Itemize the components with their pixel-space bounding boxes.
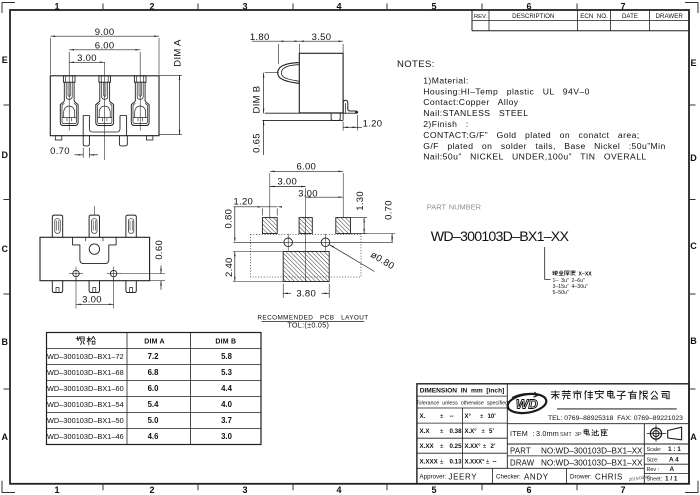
svg-text:±: ± bbox=[440, 428, 444, 435]
svg-text:B: B bbox=[690, 336, 697, 346]
svg-text:X.X: X.X bbox=[420, 428, 431, 435]
svg-text:TOL:(±0.05): TOL:(±0.05) bbox=[287, 321, 329, 330]
svg-text:DRAW: DRAW bbox=[510, 458, 535, 467]
svg-text:4.4: 4.4 bbox=[221, 384, 233, 393]
svg-text:3.80: 3.80 bbox=[296, 289, 316, 300]
svg-text:JEERY: JEERY bbox=[449, 472, 478, 481]
svg-text:5: 5 bbox=[431, 485, 436, 495]
svg-text:DESCRIPTION: DESCRIPTION bbox=[512, 13, 554, 20]
svg-text:4: 4 bbox=[336, 2, 341, 12]
svg-text:6.8: 6.8 bbox=[148, 368, 160, 377]
svg-text:1)Material:: 1)Material: bbox=[423, 75, 469, 85]
svg-text:C: C bbox=[1, 244, 8, 254]
svg-text:DIM B: DIM B bbox=[251, 86, 262, 114]
svg-text:Nail:50u” NICKEL UNDER,100u”: Nail:50u” NICKEL UNDER,100u” TIN OVERALL bbox=[423, 152, 646, 162]
svg-text:PART NUMBER: PART NUMBER bbox=[427, 202, 481, 211]
svg-text:0.25: 0.25 bbox=[450, 443, 463, 450]
svg-text:Contact:Copper Alloy: Contact:Copper Alloy bbox=[423, 97, 519, 107]
svg-text:3.50: 3.50 bbox=[312, 32, 332, 43]
svg-text:5–50u”: 5–50u” bbox=[553, 290, 569, 296]
svg-text:Housing:HI–Temp plastic UL: Housing:HI–Temp plastic UL 94V–0 bbox=[423, 86, 590, 96]
svg-text:X.XX°: X.XX° bbox=[465, 444, 482, 450]
svg-text:A 4: A 4 bbox=[669, 456, 679, 463]
svg-text:E: E bbox=[690, 58, 696, 68]
svg-text:7: 7 bbox=[620, 2, 625, 12]
svg-text:G/F plated on solder tails: G/F plated on solder tails, Base Nickel … bbox=[423, 141, 666, 151]
svg-text:D: D bbox=[1, 150, 8, 160]
svg-text:SMT 3P: SMT 3P bbox=[560, 432, 582, 438]
svg-text:A: A bbox=[670, 466, 675, 473]
svg-text:DIM A: DIM A bbox=[172, 39, 183, 67]
svg-text:NO:WD–300103D–BX1–XX: NO:WD–300103D–BX1–XX bbox=[541, 458, 643, 467]
svg-text:1 / 1: 1 / 1 bbox=[665, 476, 678, 483]
svg-text:2)Finish :: 2)Finish : bbox=[423, 119, 468, 129]
svg-text:5.8: 5.8 bbox=[221, 352, 233, 361]
svg-text:0.70: 0.70 bbox=[50, 146, 70, 157]
svg-text:DIMENSION IN mm [inch]: DIMENSION IN mm [inch] bbox=[420, 387, 505, 394]
svg-text:A: A bbox=[690, 432, 697, 442]
svg-text:X.X°: X.X° bbox=[465, 429, 478, 435]
svg-text:Sheet:: Sheet: bbox=[647, 477, 663, 483]
svg-text:DRAWER: DRAWER bbox=[656, 13, 684, 20]
svg-text:3.7: 3.7 bbox=[221, 416, 232, 425]
svg-text:X.XXX°: X.XXX° bbox=[465, 459, 486, 465]
svg-text:DIM A: DIM A bbox=[144, 339, 165, 346]
svg-text:2: 2 bbox=[149, 485, 154, 495]
svg-text:4: 4 bbox=[336, 485, 341, 495]
svg-text:3: 3 bbox=[242, 485, 247, 495]
svg-text:CONTACT:G/F” Gold plated on: CONTACT:G/F” Gold plated on conatct area… bbox=[423, 130, 640, 140]
svg-text:Drower:: Drower: bbox=[570, 474, 592, 481]
svg-text:6.0: 6.0 bbox=[148, 384, 160, 393]
svg-text:NOTES:: NOTES: bbox=[397, 59, 435, 70]
svg-text:0.80: 0.80 bbox=[224, 209, 235, 229]
svg-text:5.4: 5.4 bbox=[148, 400, 160, 409]
svg-text:WD: WD bbox=[516, 396, 539, 411]
svg-text:X.XX: X.XX bbox=[420, 443, 435, 450]
svg-text:WD–300103D–BX1–60: WD–300103D–BX1–60 bbox=[47, 384, 124, 393]
svg-text:5’: 5’ bbox=[489, 429, 494, 435]
svg-text:3.00: 3.00 bbox=[277, 177, 297, 188]
svg-text:Rev :: Rev : bbox=[647, 467, 660, 473]
svg-text:0.13: 0.13 bbox=[450, 458, 463, 465]
svg-text:5.0: 5.0 bbox=[148, 416, 160, 425]
svg-text:2.40: 2.40 bbox=[224, 257, 235, 277]
svg-text:TEL: 0769–88925318 FAX: 0769–: TEL: 0769–88925318 FAX: 0769–89221023 bbox=[548, 415, 683, 422]
svg-text:1.80: 1.80 bbox=[250, 32, 270, 43]
svg-text:WD–300103D–BX1–54: WD–300103D–BX1–54 bbox=[47, 400, 124, 409]
svg-text:C: C bbox=[690, 241, 697, 251]
svg-text:0.38: 0.38 bbox=[450, 428, 463, 435]
svg-text:Nail:STANLESS STEEL: Nail:STANLESS STEEL bbox=[423, 108, 528, 118]
svg-text:--: -- bbox=[493, 459, 497, 465]
svg-text:6.00: 6.00 bbox=[95, 40, 115, 51]
svg-text:1: 1 bbox=[54, 2, 59, 12]
svg-text:X.: X. bbox=[420, 413, 426, 420]
svg-text:5: 5 bbox=[431, 2, 436, 12]
svg-text:Checker:: Checker: bbox=[496, 474, 521, 481]
svg-text:Size:: Size: bbox=[647, 457, 659, 463]
svg-text:D: D bbox=[690, 153, 697, 163]
svg-text:WD–300103D–BX1–72: WD–300103D–BX1–72 bbox=[47, 352, 124, 361]
svg-text:B: B bbox=[1, 337, 8, 347]
svg-text:Approver:: Approver: bbox=[420, 474, 447, 481]
svg-text:A: A bbox=[1, 432, 8, 442]
svg-text:±: ± bbox=[440, 458, 444, 465]
svg-text:3.00: 3.00 bbox=[77, 53, 97, 64]
svg-text:0.65: 0.65 bbox=[251, 133, 262, 153]
svg-text:4.6: 4.6 bbox=[148, 432, 160, 441]
svg-text:3.00: 3.00 bbox=[298, 188, 318, 199]
svg-text:3: 3 bbox=[242, 2, 247, 12]
svg-text:0.60: 0.60 bbox=[154, 240, 165, 260]
svg-text:Tolerance unless otherwise: Tolerance unless otherwise specified bbox=[416, 401, 508, 407]
svg-text:3.0mm: 3.0mm bbox=[536, 429, 559, 438]
svg-text:7: 7 bbox=[620, 485, 625, 495]
svg-text:PART: PART bbox=[510, 447, 531, 456]
svg-text:WD–300103D–BX1–50: WD–300103D–BX1–50 bbox=[47, 416, 124, 425]
svg-text:WD–300103D–BX1–XX: WD–300103D–BX1–XX bbox=[431, 229, 570, 245]
svg-text:10’: 10’ bbox=[488, 414, 497, 420]
svg-text:1: 1 bbox=[54, 485, 59, 495]
svg-text:WD–300103D–BX1–68: WD–300103D–BX1–68 bbox=[47, 368, 124, 377]
svg-text:CHRIS: CHRIS bbox=[595, 472, 623, 481]
svg-text:ITEM :: ITEM : bbox=[510, 429, 535, 438]
svg-text:X°: X° bbox=[465, 414, 472, 420]
svg-text:±: ± bbox=[440, 443, 444, 450]
svg-text:3.00: 3.00 bbox=[82, 294, 102, 305]
svg-text:--: -- bbox=[450, 413, 454, 420]
svg-text:9.00: 9.00 bbox=[95, 27, 115, 38]
svg-text:DIM B: DIM B bbox=[215, 339, 236, 346]
svg-text:3.0: 3.0 bbox=[221, 432, 233, 441]
svg-text:6.00: 6.00 bbox=[296, 162, 316, 173]
svg-text:2’: 2’ bbox=[491, 444, 496, 450]
svg-text:5.3: 5.3 bbox=[221, 368, 233, 377]
svg-text:X–XX: X–XX bbox=[579, 272, 593, 278]
svg-text:1.20: 1.20 bbox=[233, 197, 253, 208]
svg-text:1 : 1: 1 : 1 bbox=[668, 446, 681, 453]
svg-text:ANDY: ANDY bbox=[524, 472, 549, 481]
svg-text:0.70: 0.70 bbox=[384, 200, 395, 220]
svg-text:1.30: 1.30 bbox=[355, 191, 366, 211]
svg-text:1.20: 1.20 bbox=[363, 118, 383, 129]
svg-text:±: ± bbox=[440, 413, 444, 420]
svg-text:NO:WD–300103D–BX1–XX: NO:WD–300103D–BX1–XX bbox=[541, 447, 643, 456]
svg-text:2: 2 bbox=[149, 2, 154, 12]
svg-text:E: E bbox=[2, 55, 8, 65]
svg-text:ECN NO.: ECN NO. bbox=[580, 13, 608, 20]
svg-text:7.2: 7.2 bbox=[148, 352, 160, 361]
svg-text:REV.: REV. bbox=[474, 14, 487, 20]
svg-text:6: 6 bbox=[526, 485, 531, 495]
svg-text:WD–300103D–BX1–46: WD–300103D–BX1–46 bbox=[47, 432, 124, 441]
svg-text:6: 6 bbox=[526, 2, 531, 12]
svg-text:4.0: 4.0 bbox=[221, 400, 233, 409]
svg-text:DATE: DATE bbox=[622, 13, 638, 20]
svg-text:X.XXX: X.XXX bbox=[420, 458, 439, 465]
svg-text:Scale:: Scale: bbox=[647, 447, 662, 453]
